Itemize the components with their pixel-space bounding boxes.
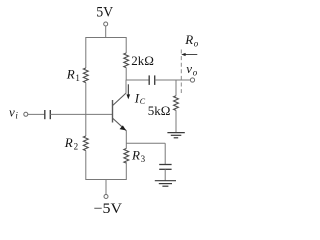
svg-text:3: 3 <box>141 154 146 164</box>
wire left column top <box>85 37 87 68</box>
resistor R2 <box>83 136 88 151</box>
arrow IC current <box>127 84 129 96</box>
dashed line Ro reference plane <box>180 50 182 94</box>
transistor Q1 emitter arrowhead <box>120 126 125 130</box>
svg-text:2kΩ: 2kΩ <box>131 53 154 68</box>
arrow Ro pointing left <box>183 54 197 56</box>
wire output horizontal left of capacitor <box>126 79 149 81</box>
wire 5k top <box>175 80 177 96</box>
svg-text:5V: 5V <box>96 5 113 21</box>
wire bypass capacitor top lead <box>164 143 166 164</box>
svg-text:R: R <box>64 135 73 150</box>
wire input capacitor to base <box>50 113 112 115</box>
wire emitter vertical <box>125 131 127 149</box>
wire bypass capacitor bottom lead <box>164 169 166 180</box>
wire left column bottom <box>85 151 87 180</box>
svg-text:o: o <box>194 38 199 48</box>
svg-text:−5V: −5V <box>94 201 123 217</box>
transistor Q1 base bar <box>112 100 114 123</box>
wire R3 to bottom rail <box>125 162 127 180</box>
ground 5k <box>167 132 184 134</box>
wire 2k to output node <box>125 68 127 80</box>
wire -5V stub <box>105 180 107 195</box>
resistor 2k collector <box>124 53 129 68</box>
wire left column middle <box>85 83 87 136</box>
resistor R3 <box>124 149 129 164</box>
svg-text:v: v <box>186 61 192 76</box>
svg-text:2: 2 <box>74 142 79 152</box>
svg-text:1: 1 <box>75 73 80 83</box>
wire 5V stub <box>105 26 107 37</box>
wire right column top <box>125 37 127 53</box>
svg-text:R: R <box>131 148 140 163</box>
svg-text:o: o <box>193 67 198 77</box>
resistor R1 <box>83 68 88 83</box>
wire vi to input capacitor <box>28 113 45 115</box>
resistor 5k load <box>174 96 179 111</box>
wire collector vertical <box>125 80 127 94</box>
svg-text:R: R <box>66 67 75 82</box>
ground bypass <box>155 180 176 182</box>
svg-text:5kΩ: 5kΩ <box>148 103 171 118</box>
capacitor emitter bypass <box>159 164 171 166</box>
wire 5k to ground <box>175 110 177 132</box>
wire bottom rail <box>86 179 127 181</box>
node -5V terminal circle <box>104 195 108 199</box>
capacitor output coupling <box>148 75 150 85</box>
svg-text:C: C <box>140 97 146 106</box>
transistor Q1 emitter diagonal <box>113 118 127 130</box>
transistor Q1 collector diagonal <box>113 93 126 105</box>
node 5V terminal circle <box>104 22 108 26</box>
svg-text:v: v <box>9 105 15 120</box>
wire emitter node to bypass capacitor <box>126 142 165 144</box>
capacitor input coupling <box>44 110 46 119</box>
wire output horizontal right of capacitor <box>155 79 191 81</box>
node vi terminal circle <box>24 112 28 116</box>
wire top rail <box>86 37 126 39</box>
node vo terminal circle <box>190 78 194 82</box>
svg-text:R: R <box>184 32 193 47</box>
